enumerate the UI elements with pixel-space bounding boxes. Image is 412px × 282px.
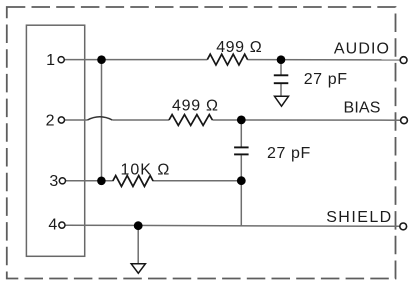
svg-text:27 pF: 27 pF: [267, 145, 311, 162]
svg-text:10K Ω: 10K Ω: [121, 161, 171, 178]
svg-text:SHIELD: SHIELD: [326, 209, 393, 226]
svg-text:1: 1: [46, 52, 55, 69]
svg-text:499 Ω: 499 Ω: [172, 98, 219, 115]
svg-text:499 Ω: 499 Ω: [216, 39, 262, 56]
svg-text:3: 3: [49, 173, 58, 190]
svg-text:4: 4: [48, 216, 57, 233]
svg-text:2: 2: [46, 112, 55, 129]
svg-text:27 pF: 27 pF: [304, 71, 348, 88]
svg-text:AUDIO: AUDIO: [334, 40, 390, 57]
svg-text:BIAS: BIAS: [344, 100, 381, 117]
